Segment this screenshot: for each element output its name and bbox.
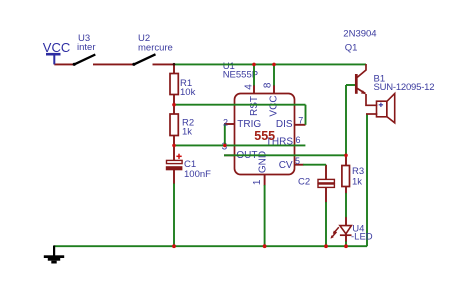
svg-text:555: 555: [254, 129, 275, 143]
svg-text:4: 4: [243, 84, 254, 90]
svg-text:10k: 10k: [180, 87, 196, 98]
svg-text:Q1: Q1: [345, 43, 358, 54]
svg-text:VCC: VCC: [269, 95, 280, 116]
svg-text:1: 1: [252, 179, 263, 185]
svg-text:CV: CV: [279, 160, 293, 171]
svg-text:C2: C2: [298, 177, 310, 188]
svg-text:-LED: -LED: [351, 232, 373, 243]
svg-text:8: 8: [263, 82, 274, 88]
svg-text:VCC: VCC: [43, 40, 70, 55]
svg-text:mercure: mercure: [138, 43, 173, 54]
svg-text:SUN-12095-12: SUN-12095-12: [374, 82, 435, 93]
svg-text:2N3904: 2N3904: [343, 29, 376, 40]
svg-text:6: 6: [296, 135, 301, 145]
svg-text:DIS: DIS: [276, 119, 293, 130]
svg-text:RST: RST: [249, 96, 260, 116]
svg-text:1k: 1k: [352, 177, 362, 188]
svg-text:2: 2: [223, 117, 228, 127]
svg-text:R3: R3: [352, 166, 364, 177]
svg-text:7: 7: [298, 115, 303, 125]
svg-text:5: 5: [295, 156, 300, 166]
svg-text:1k: 1k: [182, 127, 192, 138]
svg-text:inter: inter: [77, 42, 95, 53]
svg-text:GND: GND: [257, 151, 268, 173]
svg-text:NE555P: NE555P: [223, 70, 258, 81]
svg-text:100nF: 100nF: [184, 169, 211, 180]
